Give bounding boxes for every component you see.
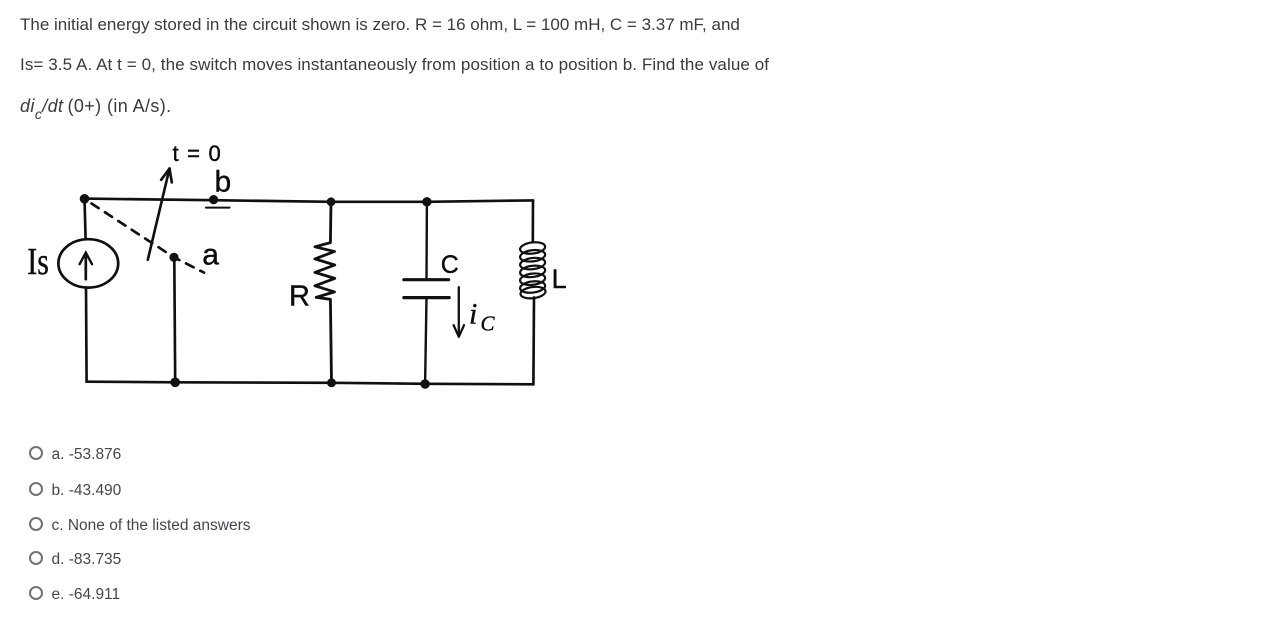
wire: switch branch a down to bottom rail (173, 259, 177, 382)
node bottom R (327, 378, 336, 387)
svg-text:b: b (215, 166, 232, 199)
switch: blade with arrow (t=0 actuation) (148, 169, 170, 260)
contact b tick mark (206, 207, 230, 209)
svg-text:L: L (552, 264, 567, 294)
wire: bottom rail (87, 382, 534, 385)
wire: right vertical (top corner to inductor) (531, 200, 534, 241)
node top R (327, 197, 336, 206)
question text line 1 (20, 16, 740, 33)
answer option d (29, 551, 43, 565)
junction dots (80, 194, 432, 389)
current source Is (circle with up arrow) (58, 239, 118, 287)
svg-text:t = 0: t = 0 (173, 141, 222, 166)
svg-text:C: C (481, 312, 496, 336)
wire: right vertical (inductor to bottom corner) (532, 298, 535, 385)
question text line 2 (20, 56, 769, 73)
switch: dashed arm from left node through contact a (92, 204, 205, 273)
wire: left vertical from top-left node to current source (85, 199, 86, 239)
svg-text:C: C (441, 251, 459, 279)
wire: top rail from left node to top-right corner (85, 199, 534, 202)
node a (169, 253, 178, 262)
wire: left vertical from current source to bottom rail (85, 288, 88, 382)
node top-left (80, 194, 90, 204)
labels (27, 141, 566, 335)
capacitor current arrow ic (454, 287, 464, 337)
node top C (422, 197, 431, 206)
node bottom a-branch (170, 378, 180, 388)
node bottom C (420, 379, 429, 388)
capacitor C (404, 202, 449, 384)
answer option b (29, 482, 43, 496)
resistor R zigzag (315, 202, 335, 383)
svg-text:R: R (289, 280, 310, 312)
inductor L coil (519, 241, 546, 300)
answer option e (29, 586, 43, 600)
answer option a (29, 446, 43, 460)
question text line 3 (formula) (20, 97, 172, 115)
svg-text:a: a (202, 239, 219, 272)
svg-text:Is: Is (27, 241, 49, 283)
answer option c (29, 517, 43, 531)
svg-text:i: i (469, 298, 477, 331)
node b (209, 195, 218, 204)
